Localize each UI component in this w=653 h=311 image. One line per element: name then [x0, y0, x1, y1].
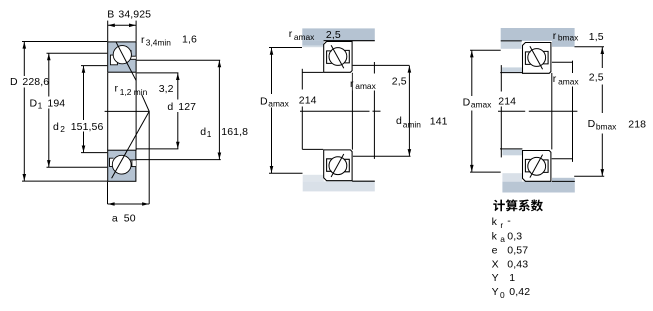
- svg-text:bmax: bmax: [596, 121, 617, 131]
- dim d extension lines: [137, 72, 179, 74]
- svg-text:1: 1: [38, 101, 43, 111]
- svg-text:amin: amin: [403, 119, 421, 129]
- svg-text:r: r: [553, 73, 557, 85]
- box right edge between sections: [351, 73, 353, 150]
- svg-text:214: 214: [299, 94, 317, 106]
- svg-text:141: 141: [430, 116, 448, 128]
- svg-text:D: D: [10, 76, 18, 88]
- svg-text:127: 127: [178, 101, 196, 113]
- housing bottom-left shoulder: [502, 173, 522, 181]
- dim d line: [177, 73, 179, 100]
- housing bottom band right step: [552, 178, 575, 182]
- dim D_amax extension lines: [470, 49, 501, 51]
- svg-text:d: d: [53, 121, 59, 133]
- dim B line: [108, 24, 136, 26]
- lower box: [523, 151, 551, 182]
- bore right line: [135, 73, 137, 151]
- svg-text:151,56: 151,56: [71, 121, 104, 133]
- svg-text:2: 2: [60, 124, 65, 134]
- svg-text:0: 0: [500, 290, 505, 300]
- axis line: [105, 110, 150, 112]
- svg-text:amax: amax: [268, 99, 289, 109]
- housing top band: [302, 28, 375, 40]
- leader r12 + lower contact diagonal: [112, 95, 150, 179]
- dim a extension lines: [107, 182, 109, 204]
- svg-text:a: a: [112, 212, 118, 224]
- housing bottom band: [502, 182, 574, 193]
- lower box: [324, 150, 352, 181]
- dim D_bmax extension lines: [575, 46, 605, 48]
- svg-text:d: d: [200, 126, 206, 138]
- svg-text:r: r: [350, 78, 354, 90]
- housing bottom band: [303, 181, 375, 191]
- svg-text:k: k: [492, 230, 498, 242]
- dim D_amax line: [271, 48, 273, 94]
- housing top band: [501, 28, 575, 41]
- washer left edge: [500, 65, 502, 91]
- svg-text:228,6: 228,6: [22, 76, 49, 88]
- housing top-left shoulder: [302, 41, 324, 46]
- shaft top surface: [302, 71, 323, 73]
- dim d_amin line: [408, 66, 410, 157]
- svg-text:r: r: [115, 83, 119, 95]
- svg-text:214: 214: [498, 95, 516, 107]
- svg-text:-: -: [507, 215, 511, 227]
- washer right face: [572, 61, 574, 73]
- heading 计算系数: [493, 199, 543, 211]
- dim D_bmax line: [601, 47, 603, 68]
- svg-text:161,8: 161,8: [221, 126, 248, 138]
- svg-text:3,2: 3,2: [159, 83, 174, 95]
- svg-text:r: r: [500, 220, 503, 230]
- svg-text:d: d: [396, 115, 402, 127]
- upper contact diagonal: [116, 42, 136, 80]
- svg-text:2,5: 2,5: [589, 72, 604, 84]
- dim d1 line: [218, 60, 220, 159]
- svg-text:r: r: [289, 28, 293, 40]
- housing bore line: [324, 40, 375, 42]
- svg-text:0,57: 0,57: [507, 245, 528, 257]
- svg-text:1: 1: [509, 272, 515, 284]
- washer contour bottom: [552, 158, 573, 160]
- dim D1 line: [48, 53, 50, 96]
- svg-text:a: a: [500, 234, 505, 244]
- shaft surface upper ext: [500, 72, 522, 74]
- dim d1 extension lines: [137, 59, 221, 61]
- svg-text:r: r: [141, 34, 145, 46]
- svg-text:amax: amax: [294, 32, 315, 42]
- svg-text:D: D: [463, 96, 471, 108]
- housing bottom bore line: [352, 180, 375, 182]
- axis line: [300, 110, 370, 112]
- housing bore line bottom: [552, 180, 575, 182]
- shaft surface lower ext: [500, 148, 522, 150]
- shaft shoulder face: [373, 62, 375, 159]
- dim D_amax line: [471, 50, 473, 96]
- box right edge between sections: [551, 73, 553, 149]
- bearing upper section: [108, 42, 136, 72]
- upper box: [324, 42, 352, 73]
- washer block upper: [502, 67, 522, 72]
- dim d2 line: [83, 66, 85, 120]
- svg-text:2,5: 2,5: [326, 29, 341, 41]
- svg-text:amax: amax: [355, 81, 376, 91]
- svg-text:X: X: [492, 258, 499, 270]
- svg-text:0,43: 0,43: [507, 258, 528, 270]
- axis line: [498, 110, 525, 112]
- housing top band right step: [552, 41, 575, 47]
- svg-text:0,3: 0,3: [507, 230, 522, 242]
- svg-text:194: 194: [47, 97, 65, 109]
- dim B extension lines: [107, 21, 109, 42]
- svg-text:D: D: [260, 95, 268, 107]
- washer block lower: [502, 150, 522, 156]
- svg-text:e: e: [492, 245, 498, 257]
- svg-text:50: 50: [124, 212, 136, 224]
- svg-text:Y: Y: [492, 286, 499, 298]
- svg-text:amax: amax: [558, 77, 579, 87]
- shaft end face: [301, 69, 303, 90]
- svg-text:2,5: 2,5: [392, 75, 407, 87]
- washer contour top: [552, 61, 573, 63]
- svg-text:d: d: [167, 101, 173, 113]
- shoulder top line: [353, 64, 410, 66]
- svg-text:1: 1: [207, 129, 212, 139]
- housing top-left shoulder: [501, 41, 522, 48]
- dim d2 extension lines: [81, 65, 107, 67]
- svg-text:218: 218: [628, 118, 646, 130]
- svg-text:Y: Y: [492, 272, 499, 284]
- shaft bottom surface: [302, 148, 323, 150]
- label r_amax 2,5 right: [353, 74, 382, 91]
- svg-text:D: D: [30, 97, 38, 109]
- upper box: [523, 43, 551, 74]
- svg-text:1,6: 1,6: [182, 34, 197, 46]
- bearing lower section: [108, 150, 136, 181]
- svg-text:r: r: [553, 30, 557, 42]
- svg-text:1,2 min: 1,2 min: [120, 87, 148, 97]
- dim D_amax extension lines: [269, 47, 302, 49]
- svg-text:3,4min: 3,4min: [146, 37, 171, 47]
- dim D line: [23, 42, 25, 77]
- svg-text:B: B: [107, 9, 114, 21]
- dim D extension lines: [22, 41, 107, 43]
- svg-text:1,5: 1,5: [589, 31, 604, 43]
- svg-text:34,925: 34,925: [118, 9, 151, 21]
- dim a line: [108, 203, 150, 205]
- svg-text:D: D: [588, 118, 596, 130]
- bore left line: [107, 73, 109, 151]
- svg-text:amax: amax: [471, 100, 492, 110]
- shoulder bottom line: [353, 155, 411, 157]
- svg-text:k: k: [492, 216, 498, 228]
- svg-text:bmax: bmax: [558, 33, 579, 43]
- label r_amax 2,5: [556, 74, 583, 87]
- housing bottom-left shoulder: [303, 175, 324, 182]
- svg-text:0,42: 0,42: [509, 286, 530, 298]
- dim D1 extension lines: [47, 52, 108, 54]
- housing bore line top: [501, 40, 522, 42]
